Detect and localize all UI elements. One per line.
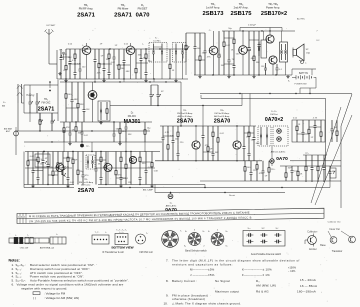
- svg-text:0A70×2: 0A70×2: [265, 117, 283, 123]
- svg-text:2nd AF Amp.: 2nd AF Amp.: [234, 5, 249, 9]
- switch box S1b: [35, 154, 50, 167]
- svg-text:Base: Base: [320, 244, 326, 247]
- svg-text:7.: 7.: [166, 258, 169, 262]
- transistor TR8 2SB170 symbol: [269, 56, 277, 64]
- wire block E jogs: [28, 159, 38, 161]
- wire rod to tuner: [22, 102, 25, 104]
- svg-text:4.7K: 4.7K: [165, 132, 170, 134]
- svg-text:( ): ( ): [33, 296, 36, 300]
- wire C rail y142: [24, 141, 162, 143]
- svg-text:47K: 47K: [207, 57, 211, 59]
- components block E extra: [42, 152, 44, 161]
- svg-text:AM 2nd IF Amp.: AM 2nd IF Amp.: [214, 115, 230, 118]
- svg-text:L₁: L₁: [15, 235, 17, 237]
- svg-text:68K: 68K: [122, 131, 126, 133]
- svg-text:Battery Current :: Battery Current :: [172, 279, 197, 283]
- diode D3 symbol: [277, 129, 282, 134]
- svg-text:S₅ᶜ: S₅ᶜ: [275, 228, 278, 230]
- wire battery feeds: [292, 68, 316, 70]
- svg-text:30P: 30P: [106, 59, 110, 61]
- svg-text:68K: 68K: [50, 167, 54, 169]
- components block A verticals: [60, 49, 62, 58]
- svg-text:L₉: L₉: [105, 232, 107, 234]
- svg-text:J —————±5%: J —————±5%: [190, 273, 215, 277]
- svg-text:8.2K: 8.2K: [65, 167, 70, 169]
- transistor TR4 symbol: [192, 141, 200, 149]
- ground symbols block C: [69, 142, 71, 144]
- svg-text:EXT ANT: EXT ANT: [47, 24, 57, 27]
- svg-text:J₁: J₁: [305, 63, 307, 65]
- svg-text:POWER SW: POWER SW: [294, 84, 307, 86]
- svg-text:30P: 30P: [334, 127, 338, 129]
- AM bar antenna L3: [14, 131, 19, 136]
- variable capacitor VC2: [36, 93, 38, 102]
- svg-text:15K: 15K: [86, 109, 90, 111]
- wire bus y93: [200, 93, 352, 95]
- ground symbols block E: [32, 185, 34, 187]
- wire antenna lead: [48, 35, 50, 65]
- wire block B jogs: [195, 59, 205, 61]
- svg-text:TP₃: TP₃: [305, 153, 309, 155]
- svg-text:Auto-Portable Antenna switch: Auto-Portable Antenna switch: [251, 253, 282, 256]
- svg-text:AM Conv.: AM Conv.: [81, 184, 91, 187]
- svg-text:12K: 12K: [128, 182, 132, 184]
- wire C-E links: [63, 142, 65, 152]
- FM OSC coil bottom view: [136, 234, 146, 244]
- svg-text:D₀: D₀: [256, 279, 260, 283]
- wire D rail bottom: [155, 160, 262, 162]
- transistor TR2 2SA71 symbol: [126, 46, 135, 55]
- transistor TR5b symbol: [233, 141, 241, 149]
- svg-text:10.7MC: 10.7MC: [153, 41, 161, 43]
- legend circles: [330, 237, 337, 244]
- components right mid strings: [331, 120, 333, 129]
- svg-text:68K: 68K: [74, 99, 78, 101]
- legend connector lines: [328, 231, 332, 238]
- speaker SP: [292, 48, 294, 58]
- variable capacitor VC1: [29, 93, 31, 102]
- svg-text:ANT: ANT: [6, 130, 11, 133]
- svg-text:33K: 33K: [138, 54, 142, 56]
- wire E rail bottom: [24, 184, 74, 186]
- svg-text:S₄: S₄: [288, 81, 290, 83]
- ground symbols block B: [199, 75, 201, 77]
- wire box to rail links: [29, 113, 31, 122]
- wire E rail mid: [25, 167, 72, 169]
- wire C rail y122: [60, 121, 152, 123]
- wire riser x203: [202, 106, 204, 127]
- svg-text:T₇: T₇: [180, 231, 182, 233]
- svg-text:AM (MW, LW): AM (MW, LW): [256, 284, 276, 288]
- svg-text:AM: AM: [2, 105, 5, 108]
- svg-text:S₁ᵇ: S₁ᵇ: [41, 159, 44, 161]
- wire bus y200: [329, 181, 331, 188]
- svg-text:Rd & AG: Rd & AG: [256, 289, 269, 293]
- IF transformer T2 dashed box: [173, 43, 187, 63]
- svg-text:M—————±5%: M—————±5%: [190, 268, 215, 272]
- svg-text:Resist: Resist: [229, 194, 235, 197]
- wire block B bottom rail: [194, 74, 292, 76]
- svg-text:S₄: S₄: [208, 231, 210, 233]
- ground G block A left: [59, 72, 61, 74]
- svg-text:2SA70: 2SA70: [78, 188, 94, 194]
- svg-text:F——————± 1%: F——————± 1%: [242, 273, 270, 277]
- svg-text:S₃₋₁ :: S₃₋₁ :: [16, 271, 23, 275]
- svg-text:S₁: S₁: [185, 231, 187, 233]
- dial cord diagonal 1: [315, 115, 352, 205]
- svg-text:Collector Out: Collector Out: [328, 221, 341, 224]
- svg-text:4.7K: 4.7K: [313, 118, 318, 120]
- wire bus y100 left: [110, 105, 242, 107]
- components block E verticals: [27, 152, 29, 161]
- svg-text:2.2K: 2.2K: [77, 63, 82, 65]
- wire block A top rail: [66, 48, 188, 50]
- svg-text:FM Mixer: FM Mixer: [118, 6, 129, 10]
- svg-text:68K: 68K: [126, 71, 130, 73]
- svg-text:2SB170×2: 2SB170×2: [261, 11, 287, 17]
- wire riser x181: [180, 82, 182, 126]
- svg-text:2SA71: 2SA71: [114, 13, 133, 19]
- transistor legend symbol: [308, 236, 317, 245]
- components block B verticals: [194, 33, 196, 47]
- transistor TR9 symbol: [56, 164, 64, 172]
- transistor TR11 symbol: [129, 156, 136, 163]
- svg-text:AM Det & AGC: AM Det & AGC: [271, 151, 286, 154]
- svg-text:AC HEC: AC HEC: [297, 18, 306, 21]
- svg-text:DC: DC: [316, 40, 320, 42]
- transistor TR9b bare symbol: [61, 170, 63, 175]
- svg-text:47K: 47K: [66, 127, 70, 129]
- FM tuner enclosure box: [24, 85, 58, 113]
- dial cord diagonal right: [341, 94, 352, 126]
- transistor TR7 2SB170 symbol: [266, 35, 274, 43]
- AM det AF takeoff strings: [305, 155, 307, 166]
- svg-text:TP₂: TP₂: [86, 146, 90, 148]
- svg-text:BOTTOM VIEW: BOTTOM VIEW: [111, 246, 133, 250]
- svg-text:2SB175: 2SB175: [231, 11, 253, 17]
- wire riser x325: [325, 98, 327, 180]
- svg-text:30P: 30P: [215, 152, 219, 154]
- ground symbols block A: [65, 79, 67, 81]
- wire E left edge: [15, 131, 17, 155]
- svg-text:S₂₋₁ :: S₂₋₁ :: [16, 267, 23, 271]
- svg-text:L₂: L₂: [142, 44, 144, 46]
- svg-text:FM 2nd IF Amp.: FM 2nd IF Amp.: [177, 112, 193, 115]
- svg-text:TR₅: TR₅: [211, 2, 216, 6]
- volume pot F: [330, 168, 336, 178]
- wire T1 T2 tails: [153, 61, 155, 79]
- node junction above box: [49, 90, 51, 92]
- junction dots E: [43, 151, 44, 152]
- volume control VR1: [185, 33, 187, 45]
- svg-text:33K: 33K: [128, 134, 132, 136]
- wire bus verticals: [204, 185, 206, 188]
- svg-text:L₇,L₈: L₇,L₈: [119, 232, 124, 234]
- svg-text:L₃: L₃: [56, 234, 58, 236]
- output stage small caps: [265, 63, 267, 68]
- ferrite rod antenna diagram: [9, 238, 49, 243]
- svg-text:160—190mA: 160—190mA: [297, 289, 316, 293]
- svg-text:TR₃: TR₃: [44, 99, 48, 101]
- svg-text:TR₇ TR₈: TR₇ TR₈: [268, 2, 278, 6]
- IF transformer bottom view 2: [115, 234, 128, 245]
- svg-text:2SA70: 2SA70: [177, 119, 193, 125]
- dial cord diagonal 2: [311, 107, 341, 203]
- svg-text:Collector: Collector: [307, 230, 317, 233]
- svg-text:Emitter: Emitter: [309, 248, 317, 251]
- svg-text:33K: 33K: [256, 62, 260, 64]
- wire bus y82: [60, 81, 181, 83]
- svg-text:Band Selector switch: Band Selector switch: [185, 249, 207, 252]
- svg-text:FM 3rd IF Amp.: FM 3rd IF Amp.: [214, 112, 229, 115]
- trimmer capacitors mid: [150, 85, 152, 94]
- svg-text:S₁₋₁: S₁₋₁: [155, 38, 159, 40]
- svg-text:S₁ₐ: S₁ₐ: [3, 102, 6, 104]
- svg-text:FM AFC: FM AFC: [128, 115, 137, 118]
- svg-text:No Signal: No Signal: [215, 279, 230, 283]
- svg-text:D₂: D₂: [131, 113, 134, 115]
- svg-text:Notes:: Notes:: [9, 259, 20, 263]
- svg-text:4.7K: 4.7K: [72, 60, 77, 62]
- wire bus y192: [155, 192, 285, 194]
- svg-text:BATT 6V: BATT 6V: [299, 72, 309, 75]
- wire bus y98: [201, 97, 326, 99]
- svg-text:10.: 10.: [164, 301, 168, 305]
- components block C upper strings: [65, 82, 67, 94]
- banner band frame: [17, 208, 324, 223]
- svg-text:S₅ₐ: S₅ₐ: [247, 228, 250, 230]
- svg-text:FM OSC: FM OSC: [42, 103, 51, 105]
- transistor TR5 2SB173 symbol: [209, 46, 218, 55]
- components C lower: [39, 113, 41, 120]
- transistor TR1 2SA71 symbol: [82, 46, 91, 55]
- interstage transformer T8: [261, 40, 267, 58]
- diode D4 symbol: [277, 137, 282, 142]
- wire block B top rails: [222, 30, 295, 32]
- MA301 section box: [98, 101, 110, 121]
- svg-text:S₄₋₁ :: S₄₋₁ :: [16, 275, 23, 279]
- svg-text:Cover Out: Cover Out: [329, 228, 340, 231]
- svg-text:TR₂: TR₂: [121, 3, 125, 7]
- svg-text:ANTENNA coil: ANTENNA coil: [40, 246, 55, 249]
- svg-text:L₂: L₂: [27, 235, 29, 237]
- svg-text:2SA71: 2SA71: [77, 13, 96, 19]
- wire D rail top: [160, 125, 256, 127]
- transistor TR10 symbol: [104, 164, 112, 172]
- svg-text:Tuning: Tuning: [26, 93, 35, 97]
- output transformer T9: [280, 42, 288, 62]
- scan noise: [85, 54, 88, 57]
- band selector switch wafer S2: [211, 233, 224, 246]
- transistor TR6 2SB175 symbol: [239, 46, 248, 55]
- band selector switch wafer S1: [188, 233, 201, 246]
- svg-text:: Voltage for AM (MW, LW): : Voltage for AM (MW, LW): [44, 296, 79, 300]
- IF transformer bottom view 1: [92, 235, 109, 244]
- AGC block box: [292, 120, 325, 142]
- svg-text:2SA70: 2SA70: [214, 119, 230, 125]
- IF transformer T5 dashed box: [258, 126, 271, 146]
- svg-text:OSC LW: OSC LW: [20, 247, 29, 249]
- wire F rails: [280, 165, 341, 167]
- svg-text:2SB173: 2SB173: [203, 11, 225, 17]
- svg-text:9.: 9.: [166, 293, 169, 297]
- svg-text:16 — 85mA: 16 — 85mA: [300, 284, 317, 288]
- diode D5 symbol: [168, 194, 173, 199]
- components block D verticals: [162, 126, 164, 137]
- svg-text:S₂: S₂: [202, 231, 204, 233]
- svg-text:D₅: D₅: [170, 203, 173, 205]
- svg-text:S₃: S₃: [184, 245, 186, 247]
- wire battery to bus: [309, 88, 311, 94]
- svg-text:1st AF Amp.: 1st AF Amp.: [206, 5, 220, 9]
- wire bus y187: [24, 187, 74, 189]
- svg-text:K——————± 10%: K——————± 10%: [242, 268, 272, 272]
- wire C rail y131: [15, 130, 150, 132]
- svg-text:5.6K: 5.6K: [154, 171, 159, 173]
- svg-text:AM 2.AMP: AM 2.AMP: [143, 189, 154, 192]
- svg-text:S₁₁~S₁₇ :: S₁₁~S₁₇ :: [16, 263, 27, 267]
- wire B left rail: [186, 32, 205, 34]
- svg-text:TR₄: TR₄: [183, 110, 187, 112]
- svg-text:Maximum output: Maximum output: [215, 289, 239, 293]
- svg-text:33K: 33K: [80, 104, 84, 106]
- svg-text:TR₁: TR₁: [84, 3, 88, 7]
- svg-text:0A70: 0A70: [136, 13, 150, 19]
- svg-text:S₅: S₅: [225, 231, 227, 233]
- auto portable antenna switch box: [243, 231, 285, 247]
- svg-text:resistors and capacitors as fo: resistors and capacitors as follows:: [172, 262, 233, 266]
- svg-text:S₅ᵇ: S₅ᵇ: [261, 228, 264, 230]
- svg-text:− 10%: − 10%: [288, 270, 296, 273]
- svg-text:AM D.AGC: AM D.AGC: [166, 204, 177, 207]
- wire bus y196: [200, 180, 240, 182]
- svg-text:△ Mark: The X diagram show cha: △ Mark: The X diagram show chassis groun…: [172, 301, 241, 305]
- svg-text:8.: 8.: [166, 279, 169, 283]
- svg-text:S₆: S₆: [225, 245, 227, 247]
- wire block A bottom rail: [57, 78, 188, 80]
- svg-text:Power Amp.: Power Amp.: [266, 5, 280, 9]
- wire block D jogs: [163, 135, 173, 137]
- ratio detector dashed box: [273, 126, 288, 146]
- FM rod antenna: [17, 84, 19, 103]
- earphone jack J1: [300, 60, 303, 63]
- svg-text:6.: 6.: [12, 283, 15, 287]
- svg-text:Volume: Volume: [183, 51, 185, 59]
- svg-text:negative with respect to groun: negative with respect to ground.: [21, 286, 67, 290]
- svg-text:FM 1st IF Amp: FM 1st IF Amp: [79, 181, 94, 184]
- svg-text:TR₅: TR₅: [220, 110, 224, 112]
- svg-text:: Voltage for FM: : Voltage for FM: [44, 291, 66, 295]
- IF transformer T1 dashed box: [149, 43, 167, 63]
- svg-text:AM 1st IF Amp.: AM 1st IF Amp.: [178, 115, 193, 118]
- svg-text:IF Transformer & coil: IF Transformer & coil: [102, 251, 124, 254]
- svg-text:TR₆: TR₆: [239, 2, 244, 6]
- svg-text:FM Det: FM Det: [270, 113, 278, 116]
- svg-text:15 ~ 20mA: 15 ~ 20mA: [300, 278, 316, 282]
- components block F verticals: [244, 161, 246, 167]
- components block C verticals: [63, 122, 65, 128]
- svg-text:TH: TH: [232, 59, 235, 61]
- test point TP2 dot: [80, 144, 84, 148]
- svg-text:0.005μF: 0.005μF: [248, 25, 257, 27]
- IF transformer T3 box E: [86, 155, 95, 169]
- svg-text:2SA71: 2SA71: [38, 107, 54, 113]
- svg-text:2.2K: 2.2K: [170, 135, 175, 137]
- svg-text:FM OSC coil: FM OSC coil: [139, 252, 153, 254]
- svg-text:0A70: 0A70: [276, 156, 288, 162]
- transistor TR3 symbol dark: [88, 91, 97, 100]
- dial drum pulley: [162, 231, 179, 248]
- svg-text:T₁,T₂: T₁,T₂: [95, 232, 100, 234]
- svg-text:TR₉: TR₉: [84, 179, 88, 181]
- svg-text:otherwise (broadcast): otherwise (broadcast): [172, 297, 205, 301]
- svg-text:D₁: D₁: [141, 3, 144, 7]
- wire riser x250: [249, 94, 251, 127]
- svg-text:FM RF Amp.: FM RF Amp.: [79, 6, 94, 10]
- wire block A mid jogs: [68, 63, 80, 65]
- wire E rail top: [25, 151, 160, 153]
- svg-text:D₂ D₃: D₂ D₃: [271, 111, 277, 113]
- svg-text:C₈: C₈: [209, 30, 212, 32]
- svg-text:30P: 30P: [288, 168, 292, 170]
- svg-text:30P: 30P: [221, 65, 225, 67]
- svg-text:Transistor: Transistor: [332, 250, 343, 253]
- svg-text:FM DET: FM DET: [138, 6, 148, 10]
